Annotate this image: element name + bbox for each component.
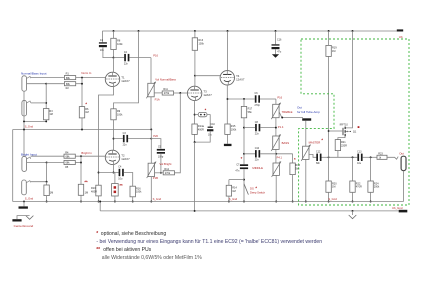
svg-text:P1.4: P1.4 [278,125,284,129]
node T1 plate supply [113,57,115,59]
connector jack B1 [22,156,31,171]
wire CenterGround [17,216,30,220]
wire R15 gnd stem [227,134,229,143]
wire C1 bottom [103,47,114,57]
node T4 cathode out [227,98,229,100]
svg-text:S_Gnd: S_Gnd [153,197,162,201]
wire Q1 source [338,136,345,139]
wire R20 top [328,157,330,181]
capacitor C16 [272,44,280,49]
svg-text:270p: 270p [255,104,261,107]
svg-text:P1B: P1B [153,176,158,180]
triode T1 [105,72,130,86]
svg-text:100k: 100k [117,43,123,46]
svg-text:270k: 270k [165,172,171,175]
node R24 tap [370,156,372,158]
svg-text:MIDDLE: MIDDLE [252,166,263,170]
node rail x194.9 [194,30,196,32]
wire C1 leg [102,31,104,42]
wire P1A top [150,58,152,84]
svg-text:Ub_Gnd: Ub_Gnd [392,206,403,210]
wire T3 plate to T4 grid [195,75,220,77]
node R24 gnd [370,201,372,203]
svg-text:S_Gnd: S_Gnd [229,197,238,201]
node rail x227.5 [227,30,229,32]
wire bass bottom [275,149,277,163]
wire B2 tip [31,163,47,182]
svg-text:10u: 10u [100,49,105,52]
svg-text:C2: C2 [124,51,128,54]
potentiometer P1B [147,162,156,179]
svg-text:alle Widerstände 0,6W/5% oder: alle Widerstände 0,6W/5% oder MetFilm 1% [102,255,202,261]
wire grid join [81,78,83,107]
wire C2 row left [114,57,125,59]
svg-text:*: * [321,138,323,143]
node R20 gnd [328,201,330,203]
node slope gnd [243,201,245,203]
wire Q1 drain [346,31,353,128]
wire Rdeep top [228,180,230,186]
wire R24 top [370,157,372,181]
svg-text:P4.1: P4.1 [277,156,283,160]
resistor R19 [326,45,337,56]
connector jack N2 [22,100,31,116]
svg-text:22n: 22n [123,144,128,147]
capacitor C4 [118,166,123,181]
svg-text:**: ** [84,179,88,184]
wire C13 out [363,156,377,158]
terminal Ub_Gnd [399,210,408,213]
node C5 join [160,172,162,174]
wire deep row [229,179,244,181]
wire R19 bottom [328,56,330,157]
node gate bias [328,156,330,158]
resistor R20 [326,181,337,192]
resistor R15 [225,124,237,134]
wire N1 ring [27,83,46,85]
svg-text:12AX7: 12AX7 [121,79,130,83]
resistor R7 [78,184,88,195]
svg-text:1M: 1M [85,191,88,194]
wire main gnd stem [352,211,354,215]
wire slope column [243,118,245,164]
svg-text:*: * [205,107,207,112]
node wiper line [281,117,283,119]
node header gnd [114,201,116,203]
node T2 plate [113,138,115,140]
wire R20 bottom [328,192,330,201]
wire R21 bottom [337,151,339,158]
wire T3 cathode to Ub_Gnd [194,142,196,211]
wire treble wiper out [279,112,303,118]
resistor R16 [130,186,142,197]
wire R8 bottom [113,50,115,58]
ground main [349,215,357,219]
wire source row [329,156,358,158]
connector header opt [112,184,119,196]
svg-text:Norm In: Norm In [81,71,91,75]
svg-text:12AX7: 12AX7 [203,93,212,97]
wire R8 top [113,31,115,38]
potentiometer P1A [146,82,155,99]
wire master wiper [309,154,317,157]
power terminal Ub [397,29,403,31]
node shared cathode L [98,172,100,174]
svg-text:Normal/Bass Input: Normal/Bass Input [21,71,47,75]
node bus jackcol [23,129,25,131]
svg-text:*: * [294,157,296,162]
svg-text:C13: C13 [357,151,362,154]
capacitor C10el [207,124,216,136]
wire R19 top [328,31,330,45]
resistor R17 [241,106,252,117]
svg-text:22n: 22n [124,63,129,66]
wire T2 cathode [113,165,115,173]
wire Q1 gate [329,130,343,132]
wire T3 cathode [194,101,196,143]
capacitor C13 [357,151,363,166]
svg-text:R23: R23 [378,152,383,155]
wire C16 leg [275,31,277,44]
triode T3 [187,86,212,100]
transistor Q1 [343,127,351,137]
wire R10 bottom [98,196,100,202]
capacitor C1 [99,39,107,52]
boundary main board [299,39,409,205]
wire C10 row [244,153,293,155]
node R5 join [80,162,82,164]
svg-text:Bright In: Bright In [81,151,92,155]
wire T3 plate drop [194,76,196,87]
wire T2 plate [113,149,115,151]
wire B+ rail [102,30,401,32]
svg-text:R12: R12 [164,168,169,171]
resistor R9 [111,109,123,120]
node master gnd [305,201,307,203]
wire Ub_Gnd bus [100,210,399,212]
connector jack N1 [22,76,31,91]
node R10 gnd [98,201,100,203]
wire R9 bottom [113,120,115,151]
svg-text:*: * [96,231,98,237]
node P1B gnd [150,201,152,203]
node Rsh gnd [46,201,48,203]
wire R7 bottom [80,195,82,201]
svg-text:1M: 1M [49,113,52,116]
wire C8 row [244,127,276,129]
resistor R1 [64,73,75,80]
svg-text:CenterGround: CenterGround [14,224,34,228]
wire N shunt col [45,84,47,109]
resistor R4 [64,151,75,158]
svg-text:C1: C1 [100,39,104,42]
node rail x275.5 [275,30,277,32]
node R16 gnd [132,201,134,203]
svg-text:1M: 1M [85,111,88,114]
node middle row [243,153,245,155]
wire R13 top [194,31,196,38]
marker Q1 optional [358,126,360,128]
node bus link [99,201,101,203]
svg-text:S_Gnd: S_Gnd [328,197,337,201]
svg-text:270k: 270k [164,92,170,95]
wire C5 top [151,139,161,149]
node R2 join [81,83,83,85]
svg-text:Bright Input: Bright Input [21,152,37,156]
connector jack B2 [22,180,31,195]
resistor R23 [377,152,387,159]
svg-text:22n: 22n [255,133,260,136]
node B shunt top [46,162,48,164]
wire R5k6 top [292,154,294,163]
node gnd sym bus2 [352,210,354,212]
wire R5 out [75,162,81,164]
node rail x113.5 [113,30,115,32]
capacitor C12 [316,151,322,166]
wire bus link [99,202,101,211]
node R22 tap [352,156,354,158]
resistor R2 [64,82,75,86]
svg-text:DS: DS [250,187,254,191]
svg-text:C12: C12 [316,151,321,154]
svg-text:1M: 1M [332,186,335,189]
resistor Rsh [44,185,53,196]
node jack gnd N [23,120,25,122]
wire T1 cathode [99,87,114,186]
resistor R5k6 [290,163,301,175]
svg-text:*: * [255,186,257,191]
capacitor C8 [255,121,261,136]
wire T2 grid join [80,156,82,184]
resistor R14a [192,124,205,134]
node bus potcol [150,129,152,131]
node R5k6 gnd [292,201,294,203]
terminal CenterGround [12,219,21,221]
wire treble bottom [275,118,277,136]
svg-text:IRF710: IRF710 [340,124,349,127]
wire C10el bottom [195,131,211,142]
wire P1A bottom [150,97,152,130]
node rail x328.6 [328,30,330,32]
wire R24 bottom [370,192,372,201]
wire R16 bottom [132,197,134,202]
svg-text:**: ** [96,247,100,253]
wire treble top [275,99,277,104]
svg-text:C8: C8 [255,121,259,124]
wire P1B col [150,130,152,164]
svg-text:for full Tube-Amp: for full Tube-Amp [297,110,320,114]
wire R12 out [175,93,181,173]
node slope column top [243,98,245,100]
svg-text:C16: C16 [277,39,282,42]
wire header bottom [114,196,116,202]
wire C6 out [260,98,276,100]
potentiometer MIDDLE [272,161,281,177]
wire N2 tip [31,102,46,104]
node T3 cathode [194,114,196,116]
wire C3 row [114,138,152,140]
resistor R24 [368,181,380,192]
wire C5 bottom [160,154,162,173]
node Q1 sub [350,131,351,132]
svg-text:100k: 100k [199,43,205,46]
resistor R22 [350,181,362,192]
svg-text:10u: 10u [357,162,362,165]
connector Out jack [401,156,406,170]
svg-text:C10: C10 [255,147,260,150]
node T3 grid [179,92,181,94]
wire T4 cathode [226,85,228,124]
resistor R5 [64,160,75,164]
resistor R11 [162,88,173,95]
wire B1 tip [31,155,64,157]
node middle gnd [275,201,277,203]
wire C16 gnd stem [275,49,277,54]
wire B1 ring [27,162,47,164]
svg-text:470R: 470R [356,186,362,189]
svg-text:R5: R5 [65,166,69,169]
wire C10el top [207,115,210,127]
resistor R10 [91,185,101,196]
svg-text:Vol Normal/Bass: Vol Normal/Bass [155,77,176,81]
wire T1 plate [113,58,115,73]
wire N1 tip [31,77,65,79]
wire R11 to T3 grid [174,92,188,94]
resistor R13 [192,38,204,51]
wire R2 out [76,83,82,85]
node rail x352.5 [352,30,354,32]
wire rail jog [114,31,139,109]
wire P1A wiper [154,92,162,94]
wire R22 top [352,157,354,181]
svg-text:220R: 220R [341,144,347,147]
capacitor C10 [255,147,261,162]
svg-text:C4: C4 [118,166,122,169]
node B2 join [46,181,48,183]
capacitor C2 [124,51,129,66]
svg-text:P1A: P1A [155,98,160,102]
wire Rsh bottom [46,196,48,202]
wire C12 out [322,156,329,158]
svg-text:200k: 200k [374,186,380,189]
node N shunt top [45,83,47,85]
node T2 cathode [113,172,115,174]
svg-text:100k: 100k [136,191,142,194]
svg-text:12AX7: 12AX7 [236,77,245,81]
wire S_Gnd bus [13,201,404,203]
node bus R6 [81,129,83,131]
wire R5 feed [47,162,64,164]
node Rdeep gnd [228,201,230,203]
svg-text:S_Gnd: S_Gnd [25,197,34,201]
wire R5k6 bottom [292,175,294,202]
wire jack gnd [403,171,405,202]
capacitor C5 [157,146,165,159]
svg-text:P20: P20 [153,134,158,138]
wire R3 bottom [45,120,47,122]
node T2 grid [80,155,82,157]
svg-text:- bei Verwendung nur eines Ein: - bei Verwendung nur eines Eingangs kann… [96,239,322,245]
ground chassis [26,216,34,220]
svg-text:10u: 10u [118,177,123,180]
wire gnd bus upper [13,130,152,202]
wire below C7 [243,169,245,201]
svg-text:P16: P16 [153,54,158,58]
ground terminal S_Gnd [19,206,28,208]
node N2 tip join [45,102,47,104]
svg-text:P16: P16 [277,96,282,100]
svg-text:BASS: BASS [282,141,290,145]
node R7 gnd [80,201,82,203]
wire R22 bottom [352,192,354,201]
svg-text:optional, siehe Beschreibung: optional, siehe Beschreibung [101,231,167,237]
svg-text:S_Gnd: S_Gnd [25,124,34,128]
wire C4 out [124,173,133,187]
resistor R8 [111,38,123,49]
svg-text:1M: 1M [50,191,53,194]
svg-text:400R: 400R [91,190,97,193]
svg-text:TREBLE: TREBLE [282,110,293,114]
node bus left jacks [23,201,25,203]
node treble-bass [275,127,277,129]
svg-text:22n: 22n [255,159,260,162]
resistor R6 [79,107,89,118]
svg-text:100k: 100k [117,113,123,116]
wire P1B bottom [150,177,152,202]
svg-text:**: ** [119,183,123,188]
node R3 gnd [45,120,47,122]
wire R17 top [243,99,245,106]
wire cathode link [99,172,119,174]
svg-text:R2: R2 [66,87,70,90]
wire P1B wiper [155,172,164,174]
node T3 plate [194,75,196,77]
capacitor C7 [235,164,248,173]
svg-text:C6: C6 [255,92,259,95]
node deep row [243,179,245,181]
wire middle bottom [275,175,277,201]
wire T4 plate [227,31,229,71]
wire header top [114,173,116,184]
node middle pot top [275,153,277,155]
wire R6 bottom [81,118,83,130]
wire R13 bottom [194,50,196,75]
switch DS blade [244,184,248,195]
ground R15 [224,144,232,146]
svg-text:1M: 1M [332,50,335,53]
node bass row [243,127,245,129]
svg-text:Deep Switch: Deep Switch [250,190,266,194]
triode T4 [220,71,245,85]
svg-text:MASTER: MASTER [309,140,321,144]
wire master bottom [305,159,307,201]
svg-text:12AX7: 12AX7 [121,157,130,161]
potentiometer TREBLE [271,103,280,120]
capacitor C3 [123,132,129,147]
ground C16 [272,54,279,58]
svg-text:68n: 68n [316,162,321,165]
wire R1 out [76,77,106,79]
resistor R3 [44,109,54,120]
potentiometer BASS [271,134,280,151]
potentiometer MASTER [301,145,310,161]
wire jack gnd row N [24,91,46,156]
node rail x138.5 [138,30,140,32]
svg-text:Q1: Q1 [353,130,357,133]
node gate tap [328,130,330,132]
node P20 [150,138,152,140]
svg-text:56k: 56k [248,111,253,114]
